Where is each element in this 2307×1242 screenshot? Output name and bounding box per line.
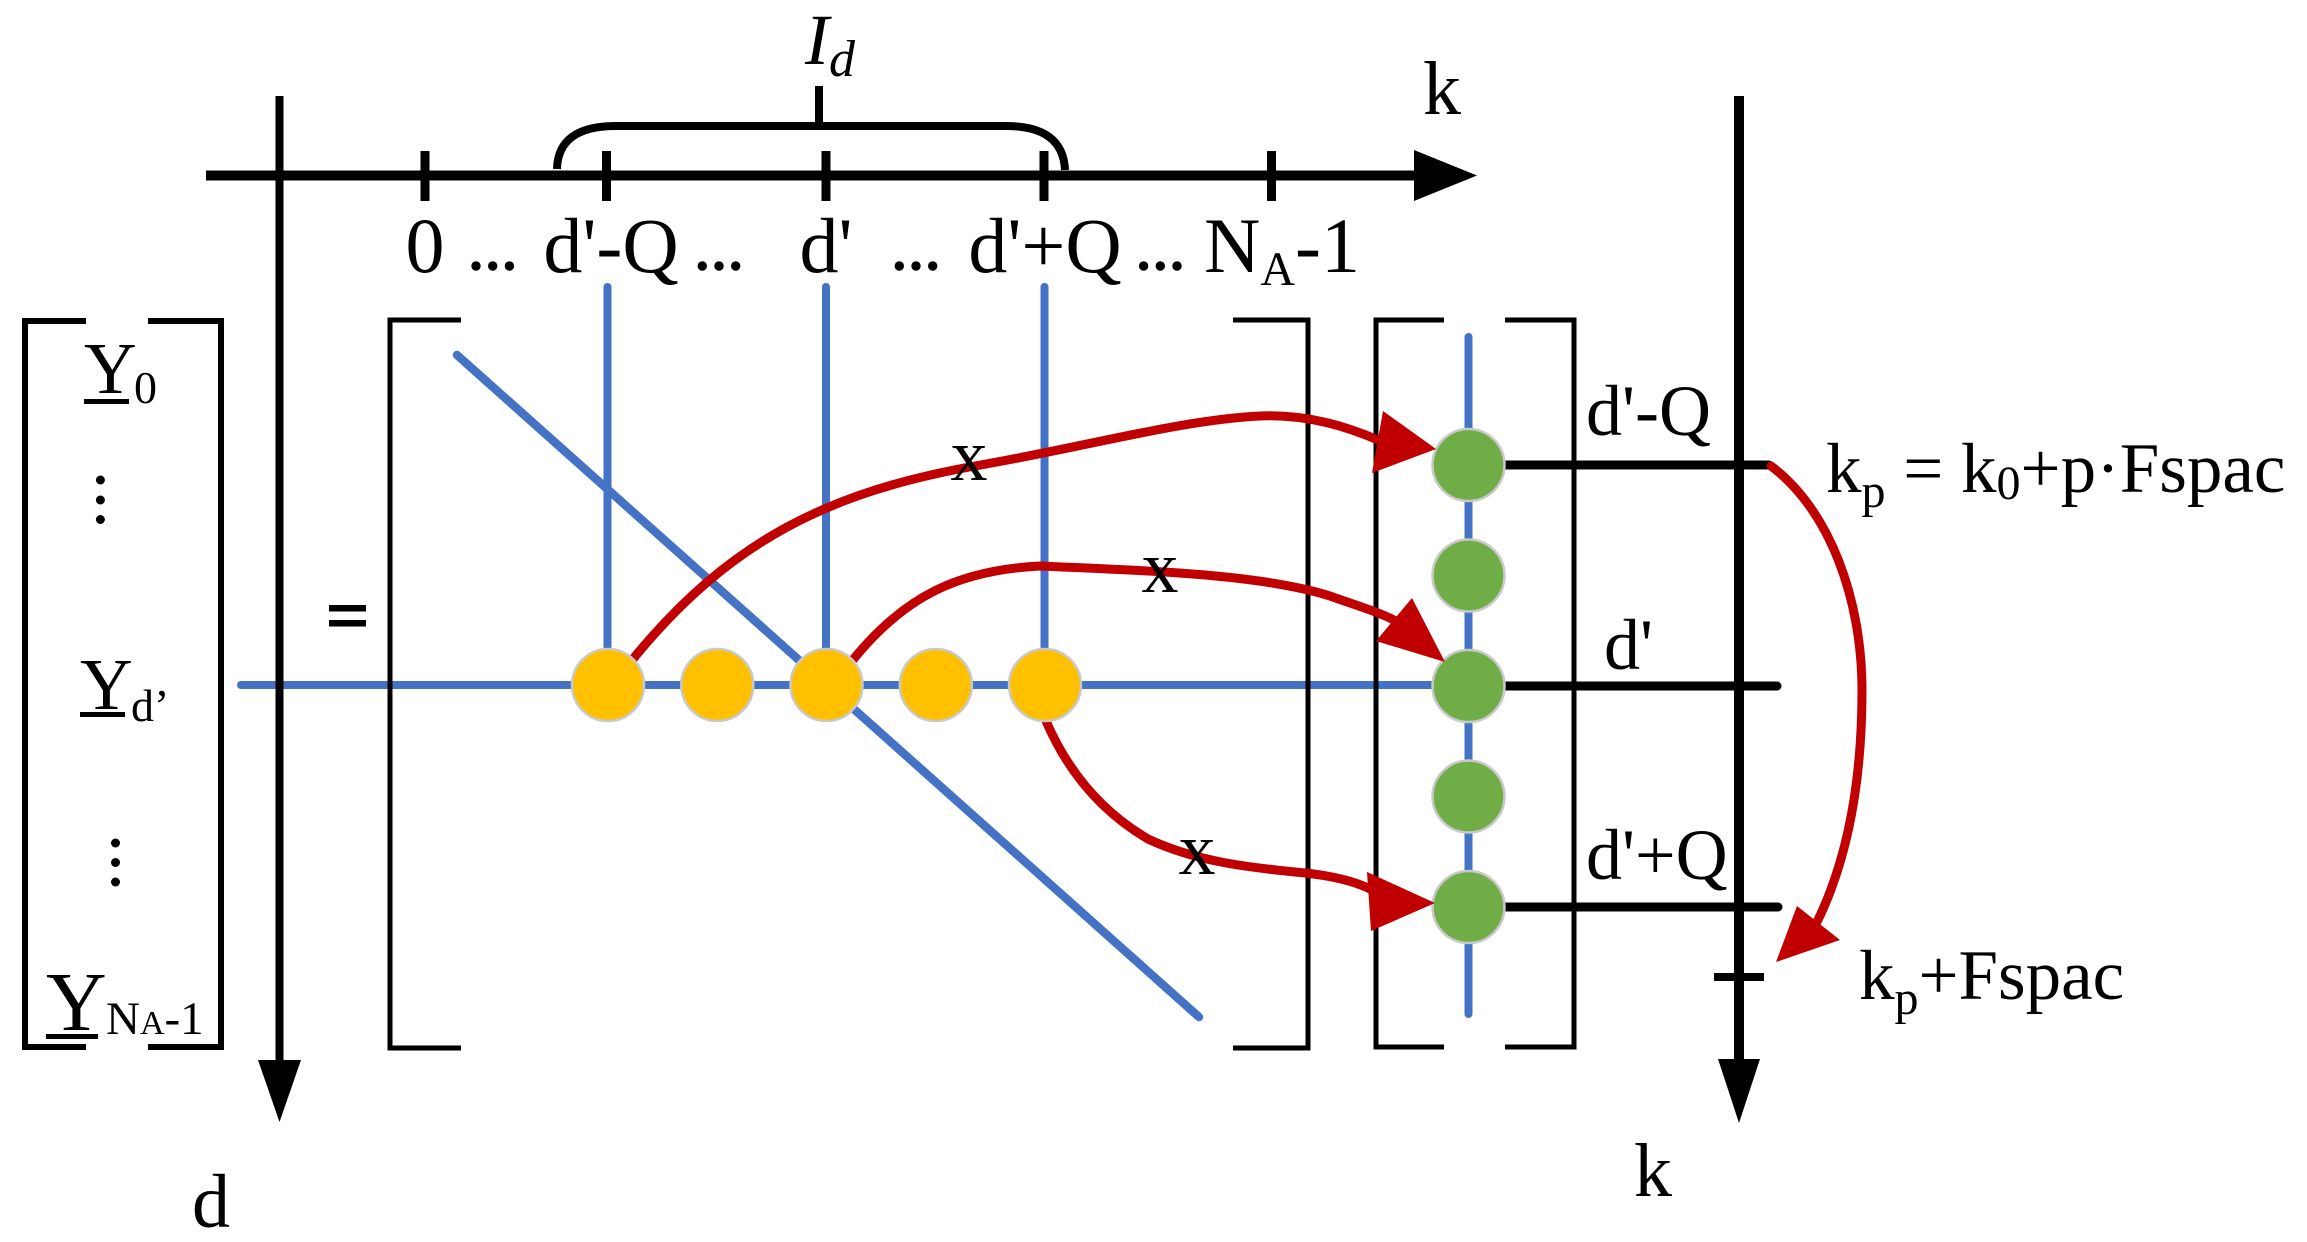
- svg-text:0: 0: [134, 362, 157, 413]
- k axis tick d'+Q: [1040, 151, 1049, 201]
- green circle 5: [1433, 871, 1505, 943]
- svg-text:d': d': [799, 202, 852, 289]
- svg-text:d'-Q: d'-Q: [1586, 371, 1711, 451]
- k axis tick NA-1: [1267, 151, 1276, 201]
- red curve 3: [1046, 721, 1372, 890]
- k axis tick 0: [421, 151, 430, 201]
- blue column line at d': [822, 287, 830, 688]
- svg-text:x: x: [951, 415, 988, 497]
- svg-text:d'+Q: d'+Q: [968, 202, 1121, 289]
- green circle 2: [1433, 540, 1505, 612]
- svg-text:kp = k0+p·Fspac: kp = k0+p·Fspac: [1826, 430, 2285, 518]
- red curve 1: [633, 416, 1378, 659]
- green circle 1: [1433, 429, 1505, 501]
- d axis (left): [276, 96, 284, 1062]
- orange circle 3: [791, 649, 863, 721]
- left vector right bracket: [148, 321, 221, 1047]
- result vector right bracket: [1505, 320, 1574, 1047]
- svg-text:x: x: [1179, 809, 1216, 891]
- red arrowhead 2: [1376, 598, 1445, 662]
- svg-text:d: d: [192, 1160, 230, 1242]
- svg-text:k: k: [1634, 1129, 1672, 1213]
- svg-text:d': d': [1604, 605, 1653, 685]
- orange circle 1: [572, 649, 644, 721]
- axis dots 3: [895, 261, 904, 270]
- green circle 3: [1433, 650, 1505, 722]
- orange circle 4: [900, 649, 972, 721]
- blue matrix diagonal: [457, 355, 1199, 1017]
- red arrowhead 1: [1372, 411, 1436, 473]
- matrix right bracket: [1233, 320, 1308, 1048]
- blue vector column line: [1465, 337, 1473, 1014]
- k axis arrowhead: [1414, 150, 1477, 201]
- black line d'+Q row: [1503, 903, 1778, 912]
- red curve 2: [852, 566, 1394, 661]
- svg-text:x: x: [1142, 527, 1179, 609]
- black line d' row: [1503, 682, 1777, 691]
- blue row line at d': [241, 681, 1438, 689]
- vdots upper: [96, 476, 105, 485]
- orange circle 2: [681, 649, 753, 721]
- k axis tick d': [822, 151, 831, 201]
- k axis right arrowhead: [1718, 1059, 1760, 1123]
- svg-text:d'+Q: d'+Q: [1586, 815, 1728, 895]
- svg-text:d’: d’: [131, 680, 169, 731]
- orange circle 5: [1009, 649, 1081, 721]
- green circle 4: [1433, 761, 1505, 833]
- result vector left bracket: [1376, 320, 1444, 1047]
- axis dots 1: [471, 261, 480, 270]
- svg-text:0: 0: [406, 202, 445, 289]
- svg-text:k: k: [1423, 47, 1461, 131]
- red arrowhead 4: [1776, 906, 1840, 962]
- k axis right tick kp+Fspac: [1714, 973, 1764, 981]
- k axis (right): [1734, 96, 1744, 1062]
- axis dots 4: [1139, 261, 1148, 270]
- left vector left bracket: [25, 321, 86, 1047]
- matrix left bracket: [390, 320, 461, 1048]
- black line d'-Q row: [1503, 461, 1769, 470]
- blue column line at d'-Q: [604, 287, 612, 688]
- blue column line at d'+Q: [1041, 287, 1049, 688]
- d axis arrowhead: [258, 1060, 301, 1122]
- I_d tick: [815, 86, 823, 124]
- red curve 4: [1771, 466, 1862, 924]
- axis dots 2: [698, 261, 707, 270]
- svg-text:Y: Y: [84, 328, 137, 409]
- k axis tick d'-Q: [602, 151, 611, 201]
- k axis (top): [206, 171, 1416, 181]
- I_d brace: [557, 126, 1065, 170]
- equals sign: [329, 605, 366, 612]
- vdots lower: [111, 839, 120, 848]
- red arrowhead 3: [1367, 872, 1435, 931]
- svg-text:d'-Q: d'-Q: [543, 202, 678, 289]
